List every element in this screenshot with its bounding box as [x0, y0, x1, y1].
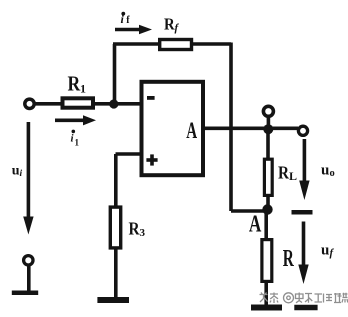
current arrow if [115, 25, 152, 35]
wire R to ground [264, 281, 268, 305]
watermark gray text [260, 293, 348, 304]
node junction at inverting input [109, 99, 118, 108]
svg-text:f: f [126, 15, 130, 26]
output terminal right circle [298, 126, 307, 135]
wire RL down to node A [266, 195, 270, 209]
label R [283, 246, 294, 272]
svg-text:1: 1 [75, 138, 80, 148]
resistor R3 [110, 207, 120, 248]
wire R1 to inverting node [95, 102, 141, 106]
label if (i dot, subscript f) [121, 12, 131, 27]
junction dot at output line [263, 124, 273, 134]
wire output junction down to RL [266, 129, 270, 159]
wire feedback bottom run to node A [231, 209, 264, 213]
svg-text:i: i [20, 169, 23, 179]
op-amp U1 box [142, 82, 204, 175]
ground bar bottom left [12, 290, 38, 295]
svg-text:A: A [249, 210, 261, 238]
wire feedback top run to Rf [113, 42, 159, 46]
svg-text:u: u [321, 243, 329, 259]
op-amp minus input sign [147, 96, 155, 100]
label R1 [68, 73, 87, 96]
input terminal (left, ui plus) [25, 99, 34, 108]
svg-text:u: u [321, 163, 329, 179]
terminal bottom left (ui minus) [24, 256, 33, 265]
label node A [249, 210, 261, 238]
resistor RL [264, 159, 272, 195]
svg-text:L: L [289, 169, 297, 183]
voltage arrow uf [298, 222, 308, 285]
svg-text:o: o [330, 168, 335, 179]
wire feedback right vertical [229, 43, 233, 212]
wire node up to feedback run [113, 44, 117, 104]
svg-text:R: R [283, 246, 294, 272]
current arrow i1 [55, 115, 96, 125]
voltage arrow ui [23, 122, 33, 235]
ground under R [251, 305, 282, 311]
op-amp gain label A [186, 118, 197, 144]
node A junction dot [262, 204, 272, 214]
resistor R1 [63, 98, 94, 107]
wire plus input [116, 152, 142, 156]
svg-text:R: R [164, 15, 175, 33]
wire node A down to R [264, 210, 268, 240]
label ui [12, 164, 23, 180]
output terminal upper circle [263, 106, 273, 127]
ground bar right under uf [294, 305, 317, 311]
ground under R3 [97, 297, 129, 303]
label Rf [164, 15, 180, 33]
wire Rf to feedback right vertical [192, 42, 232, 46]
op-amp plus input sign [146, 154, 157, 165]
resistor R [262, 240, 272, 282]
wire op-amp output [203, 127, 298, 131]
wire terminal to common bar [27, 265, 31, 291]
svg-text:3: 3 [140, 227, 146, 239]
label RL [278, 162, 297, 183]
svg-text:f: f [330, 247, 335, 259]
label uo [321, 163, 335, 180]
svg-text:1: 1 [80, 82, 86, 96]
wire plus input vertical down to R3 [114, 154, 118, 207]
label uf [321, 243, 335, 260]
svg-text:f: f [175, 22, 180, 34]
voltage arrow uo [299, 139, 309, 200]
wire input terminal to R1 [35, 102, 63, 106]
svg-text:A: A [186, 118, 197, 144]
wire R3 to ground [114, 248, 118, 297]
potential bar at node A level [292, 210, 313, 215]
label i1 (i dot, subscript 1) [71, 130, 80, 148]
label R3 [129, 218, 146, 239]
resistor Rf [160, 40, 192, 50]
